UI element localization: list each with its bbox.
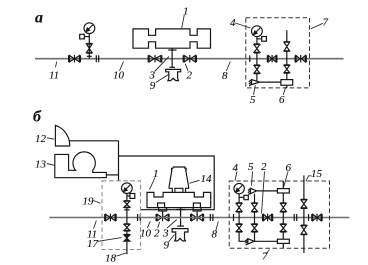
valve in box (right pair): [295, 55, 306, 62]
wire from 12: [70, 141, 119, 156]
valve 3 (right drop): [191, 214, 204, 222]
svg-text:4: 4: [233, 162, 239, 174]
svg-text:9: 9: [164, 240, 170, 252]
wire branch1: [238, 212, 240, 224]
drain pot 9 (fig b): [172, 229, 188, 241]
wire branch3: [282, 193, 284, 203]
dashed enclosure 7: [246, 18, 310, 88]
label 9 leader: [169, 235, 175, 243]
pressure gauge 4 (fig b): [234, 183, 244, 193]
wire stub below bottom fitting: [282, 243, 284, 248]
svg-text:10: 10: [140, 228, 152, 240]
svg-text:б: б: [33, 109, 42, 126]
label 8 leader: [216, 222, 219, 231]
pressure gauge (fig a, left): [84, 23, 95, 34]
wire below line: [126, 218, 128, 225]
node 11 leader: [56, 62, 57, 68]
valve 2: [183, 55, 196, 62]
label 12 leader: [47, 138, 54, 139]
flange tick before outlet valve: [308, 214, 310, 221]
valve hourglass branch2 lower: [252, 224, 258, 232]
valve hourglass vent lower: [301, 225, 307, 235]
wire branch2 to fitting 6: [286, 73, 288, 80]
dashed enclosure 19: [102, 181, 141, 250]
label 11 leader: [94, 221, 97, 229]
wire branch2 to bottom line: [254, 232, 256, 241]
label 2 leader: [185, 64, 188, 71]
wire to burner: [256, 74, 258, 81]
cabinet outline (fig b unit): [119, 156, 215, 210]
wire main line A: [35, 58, 344, 60]
valve hourglass lower branch1: [254, 65, 260, 74]
wire branch2: [254, 212, 256, 224]
wire branch2 upper: [254, 194, 256, 203]
svg-text:6: 6: [286, 162, 292, 174]
svg-text:8: 8: [212, 229, 218, 241]
flange pair mid box: [294, 214, 297, 221]
svg-text:2: 2: [187, 70, 193, 82]
wire branch3 to fitting: [282, 232, 284, 239]
wire branch2: [286, 51, 288, 65]
valve 3: [148, 55, 162, 62]
valve hourglass branch3 upper: [280, 203, 286, 212]
label 9 leader: [156, 75, 169, 83]
svg-text:19: 19: [83, 196, 95, 208]
flange tick: [124, 209, 129, 211]
flange tick inlet box: [233, 214, 235, 221]
wire from 13: [106, 174, 118, 176]
label 5 leader: [254, 85, 256, 95]
wire branch1 elbow to blowoff: [239, 232, 248, 241]
valve hourglass upper branch1: [254, 44, 260, 53]
wire left drop: [162, 211, 164, 218]
hydraulic unit 1 (notched rectangle): [133, 29, 211, 48]
wire main line B: [49, 217, 349, 219]
valve hourglass vent upper: [301, 199, 307, 208]
wire gauge stem: [126, 194, 128, 201]
flange pair at box 19: [138, 214, 141, 221]
valve hourglass upper branch2: [284, 42, 290, 52]
valve in box (left pair): [267, 55, 277, 62]
wire bottom blowoff line: [254, 240, 277, 242]
label 8 leader: [226, 62, 230, 72]
hydraulic unit 1 (fig b): [147, 192, 211, 207]
valve hourglass branch1 upper: [236, 203, 242, 212]
label 15 leader: [306, 176, 312, 181]
appliance 13 (furnace): [55, 152, 107, 178]
svg-text:17: 17: [87, 238, 99, 250]
valve hourglass below line 1: [124, 224, 130, 231]
flange pair: [96, 55, 98, 62]
wire vent tail: [303, 235, 305, 253]
svg-text:18: 18: [105, 253, 117, 265]
svg-text:7: 7: [323, 17, 329, 29]
label 17 leader: [97, 238, 121, 242]
wire stub above 6: [282, 181, 284, 189]
label 19 leader: [93, 201, 100, 204]
drain pot 9: [166, 69, 181, 80]
appliance 12 (quarter circle): [55, 125, 69, 146]
valve main line in box (fig b): [263, 214, 273, 221]
regulator 14: [169, 167, 189, 192]
label 4 leader (fig b): [235, 172, 237, 181]
svg-text:10: 10: [113, 70, 125, 82]
wire vent stub branch2: [286, 30, 288, 42]
label 5 leader (fig b): [252, 172, 253, 186]
flange pair at cabinet exit: [210, 214, 213, 221]
svg-text:6: 6: [279, 94, 285, 106]
valve hourglass branch2 upper: [252, 203, 258, 212]
svg-text:15: 15: [311, 168, 323, 180]
valve hourglass branch3 lower: [280, 224, 286, 232]
label 6 leader (fig b): [284, 172, 289, 188]
label 2 leader (fig b box): [262, 172, 265, 214]
wire gauge stem: [256, 37, 258, 45]
svg-text:13: 13: [35, 159, 47, 171]
pressure tap square: [80, 34, 90, 39]
svg-text:1: 1: [153, 168, 159, 180]
svg-text:7: 7: [262, 251, 268, 263]
svg-text:11: 11: [49, 70, 59, 82]
wire branch1: [256, 53, 258, 65]
wire branch3 mid: [282, 212, 284, 224]
pressure gauge (fig b left): [122, 183, 133, 194]
wire to line: [126, 208, 128, 218]
purge burner (bottom): [245, 239, 254, 245]
svg-text:4: 4: [230, 17, 236, 29]
wire blowoff line: [260, 81, 281, 83]
purge burner 5 (top): [248, 188, 257, 194]
flange tick: [249, 55, 251, 62]
svg-text:14: 14: [201, 173, 213, 185]
svg-text:2: 2: [154, 228, 160, 240]
valve outlet (fig b): [312, 214, 322, 221]
fitting 6 (bottom): [277, 239, 289, 243]
tee to unit 1: [168, 48, 176, 67]
purge burner 5: [249, 80, 260, 86]
valve 2 (left drop): [156, 214, 169, 222]
wire blowdown tail: [126, 242, 128, 254]
label 4 leader: [235, 23, 250, 28]
valve under gauge (hourglass): [86, 44, 92, 54]
flange block right outlet: [193, 208, 201, 211]
label 7 leader: [311, 23, 323, 29]
label 3 leader: [167, 220, 177, 229]
valve hourglass below line 2 (plug valve, filled): [124, 234, 130, 241]
valve hourglass above line: [124, 201, 130, 208]
pressure tap square: [257, 37, 267, 42]
svg-text:5: 5: [248, 161, 254, 173]
label 14 leader: [190, 180, 200, 183]
dashed enclosure 15/7: [229, 181, 329, 248]
wire top blowoff line: [257, 190, 278, 192]
valve on inlet line (left): [69, 55, 81, 62]
wire vent mid: [303, 209, 305, 226]
flange block left outlet: [159, 208, 167, 211]
label 3 leader: [155, 57, 170, 72]
wire gauge branch: [88, 34, 90, 59]
pressure gauge 4 (fig a): [252, 26, 263, 37]
svg-text:3: 3: [162, 228, 169, 240]
label 1 leader: [182, 15, 185, 29]
fitting 6 (top): [277, 189, 289, 193]
pressure tap square: [239, 195, 248, 199]
label 6 leader: [283, 87, 286, 95]
valve hourglass branch1 lower: [236, 224, 242, 232]
label 18 leader: [117, 253, 127, 256]
svg-text:8: 8: [222, 70, 228, 82]
label 2 leader: [158, 222, 160, 228]
wire vent line branch4: [303, 175, 305, 199]
node 10 leader: [120, 62, 124, 71]
wire right drop: [196, 211, 198, 218]
label 1 leader: [150, 178, 156, 190]
svg-text:5: 5: [250, 94, 256, 106]
label 7 leader: [266, 250, 270, 255]
flange tick: [87, 55, 92, 57]
valve inlet (fig b): [105, 214, 116, 221]
label 13 leader: [47, 164, 55, 166]
svg-text:12: 12: [35, 133, 47, 145]
fitting 6: [281, 80, 293, 86]
pressure tap square: [127, 194, 135, 199]
wire stub below 6: [286, 85, 288, 88]
wire gauge stem: [238, 194, 240, 203]
svg-text:1: 1: [183, 6, 189, 18]
svg-text:9: 9: [150, 80, 156, 92]
svg-text:а: а: [35, 10, 43, 27]
valve hourglass lower branch2: [284, 65, 290, 73]
tee to drain pot: [176, 208, 185, 227]
label 10 leader: [147, 221, 150, 228]
svg-text:2: 2: [261, 161, 267, 173]
wire between valves: [126, 231, 128, 234]
